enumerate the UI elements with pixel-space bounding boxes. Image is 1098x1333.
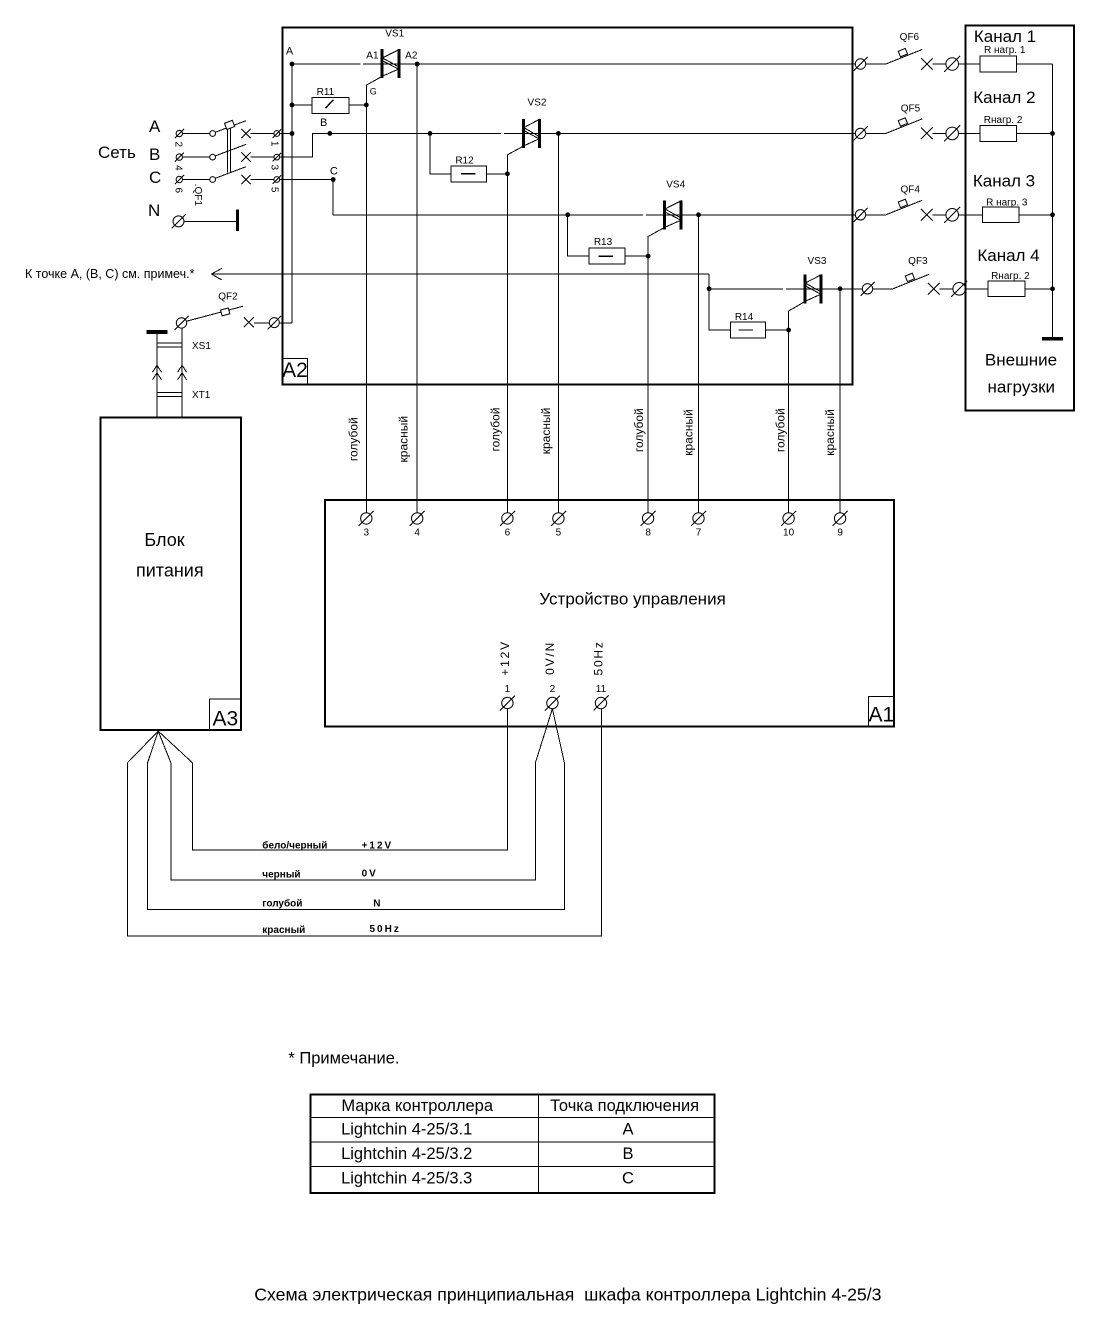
svg-text:B: B bbox=[149, 145, 160, 164]
svg-text:A: A bbox=[149, 117, 161, 136]
svg-text:2: 2 bbox=[550, 684, 556, 695]
bus C horizontal wire bbox=[333, 214, 643, 216]
breaker QF5 blade bbox=[886, 119, 922, 133]
resistor R13 bbox=[589, 248, 625, 264]
svg-text:5: 5 bbox=[556, 527, 562, 538]
terminal 11 of A1 bbox=[595, 697, 606, 708]
svg-text:Устройство управления: Устройство управления bbox=[539, 589, 725, 608]
svg-text:C: C bbox=[330, 166, 338, 178]
breaker QF1 tie bar bbox=[227, 125, 229, 173]
svg-text:* Примечание.: * Примечание. bbox=[288, 1050, 399, 1068]
wire R11 to gate node bbox=[349, 104, 366, 106]
triac VS4 triangles bbox=[665, 201, 681, 218]
note arrow wire bbox=[211, 273, 709, 275]
svg-text:R нагр. 1: R нагр. 1 bbox=[984, 45, 1026, 56]
breaker QF5 X mark bbox=[921, 128, 933, 140]
svg-text:9: 9 bbox=[837, 527, 843, 538]
breaker QF1 pole 1 wire bbox=[183, 133, 210, 135]
wire R14 to gate node bbox=[766, 329, 789, 331]
breaker QF4 output terminal bbox=[946, 209, 959, 222]
svg-text:К точке А, (В, С) см. примеч.*: К точке А, (В, С) см. примеч.* bbox=[25, 267, 195, 281]
junction C bus / R13 branch bbox=[565, 212, 570, 217]
svg-text:.QF1: .QF1 bbox=[192, 184, 203, 207]
junction VS3 input bbox=[707, 286, 712, 291]
svg-text:+12V: +12V bbox=[498, 640, 512, 676]
wire phase C bbox=[280, 179, 334, 181]
svg-text:1: 1 bbox=[269, 141, 280, 147]
VS2 gate wire bbox=[507, 146, 523, 513]
breaker QF2 blade bbox=[187, 306, 244, 321]
svg-text:+12V: +12V bbox=[362, 840, 394, 851]
svg-text:G: G bbox=[370, 87, 377, 97]
wire R13 to gate node bbox=[625, 255, 648, 257]
svg-text:A1: A1 bbox=[868, 704, 894, 727]
junction VS3 output bbox=[838, 286, 843, 291]
junction load bus ch3 bbox=[1050, 212, 1055, 217]
svg-text:Сеть: Сеть bbox=[98, 143, 136, 162]
svg-text:голубой: голубой bbox=[489, 408, 503, 452]
junction VS1 output bbox=[415, 62, 420, 67]
triac VS1 bars bbox=[380, 49, 383, 78]
VS3 input wire bbox=[709, 288, 783, 290]
wire N (blue) bbox=[148, 709, 565, 910]
svg-text:Rнагр. 2: Rнагр. 2 bbox=[984, 115, 1023, 126]
connector XS1 bars bbox=[157, 342, 182, 344]
breaker QF1 pole 1 wire to output bbox=[251, 133, 274, 135]
svg-text:питания: питания bbox=[136, 561, 204, 581]
breaker QF6 pivot square bbox=[898, 48, 907, 56]
wire phase A to bus point A bbox=[280, 133, 292, 135]
svg-text:6: 6 bbox=[172, 188, 183, 194]
breaker QF4 wire to output bbox=[933, 214, 946, 216]
load resistor R нагр.3 bbox=[966, 214, 983, 216]
module A3 power supply enclosure bbox=[101, 418, 242, 730]
load resistor R нагр.2 bbox=[966, 132, 980, 134]
breaker QF1 pole 3 blade bbox=[215, 167, 246, 179]
svg-text:0V: 0V bbox=[362, 869, 378, 880]
breaker QF5 wire to output bbox=[933, 132, 946, 134]
breaker QF1 pole 3 input terminal bbox=[176, 176, 182, 182]
svg-text:R14: R14 bbox=[735, 312, 754, 323]
svg-text:XS1: XS1 bbox=[192, 341, 211, 352]
breaker QF1 pole 3 X mark bbox=[241, 175, 250, 184]
breaker QF6 wire to load box bbox=[959, 63, 966, 65]
wire B branch down to R12 bbox=[430, 133, 451, 173]
breaker QF5 wire bbox=[866, 132, 886, 134]
wire R12 to gate node bbox=[487, 173, 508, 175]
wire +12V (white/black) bbox=[158, 709, 507, 850]
junction VS2 output bbox=[556, 131, 561, 136]
chassis bar above XS1 bbox=[147, 330, 168, 334]
breaker QF1 pole 2 blade bbox=[215, 144, 246, 156]
svg-text:голубой: голубой bbox=[774, 408, 788, 452]
breaker QF2 input terminal bbox=[176, 318, 186, 328]
svg-text:бело/черный: бело/черный bbox=[262, 839, 327, 851]
svg-text:Lightchin 4-25/3.2: Lightchin 4-25/3.2 bbox=[341, 1145, 472, 1163]
wire VS4 output down to terminal 7 bbox=[698, 215, 700, 513]
svg-text:Rнагр. 2: Rнагр. 2 bbox=[991, 271, 1030, 282]
svg-text:Точка подключения: Точка подключения bbox=[550, 1097, 699, 1115]
breaker QF1 pole 3 wire bbox=[183, 179, 210, 181]
breaker QF1 pole 3 wire to output bbox=[251, 179, 274, 181]
svg-text:Схема электрическая принципиал: Схема электрическая принципиальная шкафа… bbox=[254, 1285, 881, 1305]
svg-text:VS2: VS2 bbox=[528, 97, 547, 108]
svg-text:4: 4 bbox=[414, 527, 420, 538]
wire VS3 output down to terminal 9 bbox=[839, 289, 841, 513]
terminal 1 of A1 bbox=[502, 697, 513, 708]
breaker QF1 pole 2 wire to output bbox=[251, 156, 274, 158]
breaker QF1 pole 1 blade bbox=[215, 121, 246, 133]
wire arrow line down to VS3 input bbox=[708, 274, 710, 289]
load ground bar bbox=[1042, 337, 1063, 341]
svg-text:C: C bbox=[149, 168, 161, 187]
svg-text:6: 6 bbox=[505, 527, 511, 538]
terminal 8 of A1 bbox=[642, 513, 653, 524]
breaker QF1 pole 3 contact circle bbox=[210, 177, 216, 183]
load resistor channel 4 bbox=[966, 288, 989, 290]
svg-text:4: 4 bbox=[172, 165, 183, 171]
junction VS2 gate / R12 bbox=[505, 171, 510, 176]
svg-text:голубой: голубой bbox=[632, 408, 646, 452]
svg-text:3: 3 bbox=[269, 165, 280, 171]
svg-text:3: 3 bbox=[364, 527, 370, 538]
triac VS1 triangles bbox=[382, 50, 398, 67]
junction load bus ch2 bbox=[1050, 131, 1055, 136]
breaker QF1 pole 1 input terminal bbox=[176, 130, 182, 136]
triac VS2 triangles bbox=[524, 119, 540, 136]
svg-text:Канал 1: Канал 1 bbox=[974, 27, 1036, 46]
svg-text:Lightchin 4-25/3.3: Lightchin 4-25/3.3 bbox=[341, 1170, 472, 1188]
triac VS2 bars bbox=[522, 119, 525, 148]
breaker QF1 pole 3 output terminal bbox=[274, 177, 280, 183]
breaker QF2 wire to bus A bbox=[254, 322, 269, 324]
svg-text:R13: R13 bbox=[594, 237, 613, 248]
junction VS4 gate / R13 bbox=[646, 254, 651, 259]
terminal 5 of A1 bbox=[553, 513, 564, 524]
breaker QF1 pole 1 contact circle bbox=[210, 131, 216, 137]
svg-text:10: 10 bbox=[783, 527, 795, 538]
svg-text:А3: А3 bbox=[213, 707, 239, 730]
connector arrows right bbox=[178, 365, 187, 372]
breaker QF3 wire to output bbox=[940, 288, 953, 290]
wire 50Hz (red) bbox=[128, 709, 602, 936]
VS1 gate wire bbox=[366, 77, 382, 513]
svg-text:A2: A2 bbox=[405, 50, 418, 61]
svg-text:А: А bbox=[622, 1121, 633, 1139]
breaker QF5 input terminal bbox=[855, 128, 865, 138]
breaker QF1 pole 2 wire bbox=[183, 156, 210, 158]
breaker QF5 output terminal bbox=[946, 127, 959, 140]
svg-text:0V/N: 0V/N bbox=[543, 641, 557, 675]
breaker QF1 pole 1 X mark bbox=[241, 129, 250, 138]
junction VS3 gate / R14 bbox=[786, 328, 791, 333]
svg-text:A2: A2 bbox=[282, 359, 308, 382]
terminal 3 of A1 bbox=[361, 513, 372, 524]
breaker QF3 wire to load box bbox=[965, 288, 967, 290]
note arrowhead bbox=[211, 268, 221, 274]
svg-text:Блок: Блок bbox=[144, 530, 184, 550]
resistor R14 bbox=[731, 322, 766, 338]
svg-text:XT1: XT1 bbox=[192, 390, 211, 401]
junction bus A / QF1-1 bbox=[290, 131, 295, 136]
external loads enclosure bbox=[966, 26, 1074, 411]
svg-text:1: 1 bbox=[505, 684, 511, 695]
wire VS2 output down to terminal 5 bbox=[557, 133, 559, 512]
svg-text:B: B bbox=[320, 117, 327, 129]
terminal 2 of A1 bbox=[547, 697, 558, 708]
breaker QF3 wire bbox=[873, 288, 893, 290]
resistor R12 bbox=[451, 166, 487, 182]
svg-text:голубой: голубой bbox=[346, 417, 360, 461]
node B bbox=[328, 131, 333, 136]
breaker QF4 input terminal bbox=[855, 210, 865, 220]
wire phase B step bbox=[280, 133, 330, 157]
breaker QF6 wire to output bbox=[933, 63, 946, 65]
connector arrows left bbox=[153, 365, 162, 372]
note table frame bbox=[311, 1095, 715, 1193]
VS4 gate wire bbox=[648, 228, 664, 513]
triac VS4 bars bbox=[663, 200, 666, 229]
svg-text:красный: красный bbox=[262, 925, 305, 936]
svg-text:7: 7 bbox=[696, 527, 702, 538]
breaker QF4 pivot square bbox=[898, 199, 907, 207]
svg-text:В: В bbox=[622, 1145, 633, 1163]
svg-text:QF4: QF4 bbox=[900, 184, 920, 195]
junction load bus ch4 bbox=[1050, 286, 1055, 291]
module A2 enclosure bbox=[282, 28, 852, 385]
svg-text:нагрузки: нагрузки bbox=[988, 378, 1056, 397]
svg-text:Канал 3: Канал 3 bbox=[973, 172, 1035, 191]
terminal 9 of A1 bbox=[834, 513, 845, 524]
svg-text:QF3: QF3 bbox=[908, 256, 928, 267]
note table row lines bbox=[311, 1117, 715, 1119]
breaker QF1 pole 1 output terminal bbox=[274, 131, 280, 137]
breaker QF3 X mark bbox=[928, 283, 940, 295]
breaker QF3 output terminal bbox=[953, 283, 966, 296]
breaker QF6 output terminal bbox=[946, 58, 959, 71]
svg-text:QF5: QF5 bbox=[901, 104, 921, 115]
svg-text:50Hz: 50Hz bbox=[370, 924, 401, 935]
svg-text:QF2: QF2 bbox=[218, 292, 238, 303]
wire node C down to C bus bbox=[332, 180, 334, 215]
neutral end bar bbox=[236, 210, 239, 231]
svg-text:R12: R12 bbox=[455, 155, 474, 166]
junction VS1 gate / R11 bbox=[364, 103, 369, 108]
svg-text:Марка контроллера: Марка контроллера bbox=[341, 1097, 493, 1115]
module A2 label box bbox=[282, 358, 307, 384]
breaker QF1 pole 2 contact circle bbox=[210, 154, 216, 160]
svg-text:N: N bbox=[373, 899, 380, 910]
svg-text:черный: черный bbox=[262, 870, 300, 881]
wire VS1 output down to terminal 4 bbox=[416, 64, 418, 513]
svg-text:Канал 2: Канал 2 bbox=[973, 88, 1035, 107]
breaker QF6 input terminal bbox=[855, 59, 865, 69]
breaker QF3 blade bbox=[893, 274, 929, 289]
module A1 label box bbox=[869, 696, 894, 726]
wire C branch down to R13 bbox=[568, 215, 590, 256]
junction VS4 output bbox=[696, 212, 701, 217]
svg-text:Lightchin 4-25/3.1: Lightchin 4-25/3.1 bbox=[341, 1121, 472, 1139]
terminal 4 of A1 bbox=[412, 513, 423, 524]
terminal 7 of A1 bbox=[693, 513, 704, 524]
breaker QF2 output terminal bbox=[269, 318, 279, 328]
neutral terminal circle bbox=[173, 216, 184, 227]
breaker QF2 X mark bbox=[244, 317, 254, 327]
svg-text:2: 2 bbox=[172, 142, 183, 148]
breaker QF3 input terminal bbox=[862, 284, 872, 294]
junction B bus / R12 branch bbox=[428, 131, 433, 136]
terminal 6 of A1 bbox=[502, 513, 513, 524]
svg-text:Внешние: Внешние bbox=[985, 350, 1057, 369]
breaker QF4 X mark bbox=[921, 209, 933, 221]
svg-text:красный: красный bbox=[396, 416, 410, 463]
svg-text:A1: A1 bbox=[366, 50, 379, 61]
module A1 enclosure bbox=[325, 500, 894, 727]
breaker QF3 pivot square bbox=[905, 273, 914, 281]
triac VS3 bars bbox=[803, 274, 806, 303]
wire branch down to R14 bbox=[709, 289, 731, 330]
breaker QF4 wire to load box bbox=[959, 214, 966, 216]
connector right wire bbox=[181, 328, 183, 418]
breaker QF1 pivot square bbox=[224, 120, 234, 129]
triac VS3 triangles bbox=[805, 275, 821, 292]
bus A vertical wire bbox=[291, 64, 293, 323]
breaker QF1 pole 2 X mark bbox=[241, 152, 250, 161]
breaker QF6 blade bbox=[886, 50, 922, 65]
connector left wire bbox=[156, 334, 158, 418]
svg-text:красный: красный bbox=[823, 409, 837, 456]
VS3 gate wire bbox=[789, 302, 805, 513]
node C bbox=[331, 177, 336, 182]
breaker QF1 pole 2 output terminal bbox=[274, 154, 280, 160]
svg-text:QF6: QF6 bbox=[900, 32, 920, 43]
junction bus A / R11 bbox=[290, 103, 295, 108]
module A3 label box bbox=[210, 699, 241, 730]
svg-text:VS1: VS1 bbox=[385, 28, 404, 39]
bus B horizontal wire bbox=[312, 132, 501, 134]
connector XT1 bars bbox=[157, 391, 182, 393]
neutral wire bbox=[184, 220, 236, 222]
svg-text:11: 11 bbox=[596, 684, 607, 695]
node A bbox=[290, 62, 295, 67]
svg-text:VS3: VS3 bbox=[808, 256, 827, 267]
svg-text:8: 8 bbox=[645, 527, 651, 538]
breaker QF5 pivot square bbox=[898, 118, 907, 126]
svg-text:5: 5 bbox=[269, 187, 280, 193]
svg-text:50Hz: 50Hz bbox=[591, 640, 605, 675]
wire bus A to R11 bbox=[292, 104, 312, 106]
note table column divider bbox=[538, 1095, 540, 1193]
breaker QF2 pivot square bbox=[221, 308, 230, 316]
svg-text:N: N bbox=[148, 201, 160, 220]
svg-text:С: С bbox=[622, 1170, 634, 1188]
breaker QF1 pole 2 input terminal bbox=[176, 154, 182, 160]
svg-text:R11: R11 bbox=[317, 87, 335, 98]
bus A horizontal wire bbox=[292, 63, 360, 65]
svg-text:VS4: VS4 bbox=[666, 180, 685, 191]
svg-text:A: A bbox=[286, 45, 294, 57]
breaker QF6 wire bbox=[866, 63, 886, 65]
breaker QF4 blade bbox=[886, 200, 922, 215]
wire 0V (black) bbox=[158, 709, 552, 880]
svg-text:красный: красный bbox=[681, 409, 695, 456]
resistor R11 bbox=[312, 98, 349, 114]
load resistor R нагр.1 bbox=[966, 63, 980, 65]
svg-text:голубой: голубой bbox=[262, 898, 302, 910]
load common bus wire bbox=[1052, 64, 1054, 337]
terminal 10 of A1 bbox=[783, 513, 794, 524]
breaker QF6 X mark bbox=[921, 58, 933, 70]
svg-text:Канал 4: Канал 4 bbox=[977, 246, 1039, 265]
svg-text:красный: красный bbox=[539, 408, 553, 455]
breaker QF5 wire to load box bbox=[959, 132, 966, 134]
breaker QF4 wire bbox=[866, 214, 886, 216]
